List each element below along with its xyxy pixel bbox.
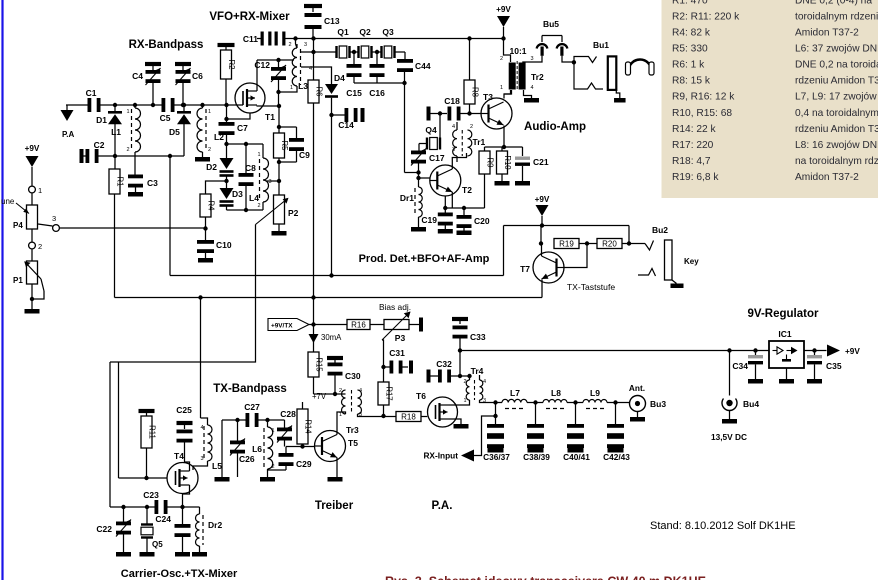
svg-text:3: 3 [52,214,56,223]
svg-text:C40/41: C40/41 [563,452,590,462]
svg-text:RX-Input: RX-Input [423,451,458,461]
svg-text:3: 3 [304,42,307,48]
svg-text:4: 4 [483,379,486,385]
svg-text:R6: 1 k: R6: 1 k [672,60,705,71]
svg-text:C1: C1 [86,88,97,98]
svg-text:R4: R4 [206,201,215,212]
svg-text:D2: D2 [206,162,217,172]
svg-text:R18: 4,7: R18: 4,7 [672,156,711,167]
svg-text:C12: C12 [254,60,270,70]
svg-text:R8: R8 [470,87,479,97]
svg-text:C44: C44 [415,61,431,71]
svg-text:P3: P3 [395,333,406,343]
svg-text:Ant.: Ant. [629,383,645,393]
svg-text:2: 2 [257,203,260,209]
svg-text:P4: P4 [13,221,23,230]
svg-text:C23: C23 [143,490,159,500]
svg-text:Carrier-Osc.+TX-Mixer: Carrier-Osc.+TX-Mixer [121,568,238,580]
svg-text:L4: L4 [249,193,259,203]
svg-text:D4: D4 [334,73,345,83]
svg-text:R5: 330: R5: 330 [672,44,708,55]
svg-text:Treiber: Treiber [315,500,354,512]
svg-text:R19: R19 [559,239,574,248]
svg-text:Q3: Q3 [382,27,394,37]
svg-text:1: 1 [208,109,211,115]
svg-text:RX-Bandpass: RX-Bandpass [129,39,204,51]
svg-text:toroidalnym rdzeniu: toroidalnym rdzeniu [795,11,878,22]
svg-text:C38/39: C38/39 [523,452,550,462]
svg-text:R8: 15 k: R8: 15 k [672,76,711,87]
svg-text:C7: C7 [237,123,248,133]
svg-text:2: 2 [208,147,211,153]
svg-text:TX-Taststufe: TX-Taststufe [567,282,615,292]
svg-text:4: 4 [531,85,534,91]
svg-text:Amidon T37-2: Amidon T37-2 [795,172,859,183]
svg-text:P.A.: P.A. [432,500,453,512]
svg-text:L5: L5 [212,461,222,471]
svg-text:R5: R5 [280,141,289,152]
svg-text:3: 3 [269,179,272,185]
svg-text:R14: 22 k: R14: 22 k [672,124,717,135]
svg-text:Key: Key [684,257,699,266]
svg-text:Q4: Q4 [425,125,437,135]
svg-text:IC1: IC1 [778,329,792,339]
svg-text:C21: C21 [533,157,549,167]
svg-text:R2: R11: 220 k: R2: R11: 220 k [672,11,740,22]
svg-text:DNE 0,2 (0-4) na: DNE 0,2 (0-4) na [795,0,872,6]
svg-text:2: 2 [339,388,342,394]
svg-text:Audio-Amp: Audio-Amp [524,121,586,133]
svg-text:L7: L7 [510,388,520,398]
svg-text:C3: C3 [147,178,158,188]
svg-text:C16: C16 [369,88,385,98]
svg-text:C9: C9 [299,150,310,160]
svg-text:Bu1: Bu1 [593,40,609,50]
svg-text:1: 1 [290,85,293,91]
svg-text:R1: R1 [115,177,124,187]
svg-text:Bu5: Bu5 [543,19,559,29]
svg-text:rdzeniu Amidon T37-2: rdzeniu Amidon T37-2 [795,124,878,135]
svg-text:C35: C35 [826,361,842,371]
svg-text:R18: R18 [401,412,416,421]
svg-text:D5: D5 [169,127,180,137]
svg-text:R17: 220: R17: 220 [672,140,714,151]
svg-text:L8: L8 [551,388,561,398]
svg-text:R4: 82 k: R4: 82 k [672,27,711,38]
svg-text:Amidon T37-2: Amidon T37-2 [795,27,859,38]
svg-text:C19: C19 [421,215,437,225]
svg-text:2: 2 [272,464,275,470]
svg-text:T4: T4 [174,451,184,461]
svg-text:D3: D3 [232,189,243,199]
svg-text:T2: T2 [462,185,472,195]
svg-text:C20: C20 [474,216,490,226]
svg-text:1: 1 [257,152,260,158]
svg-text:2: 2 [38,242,42,251]
svg-text:R11: R11 [147,425,156,439]
svg-text:T7: T7 [520,264,530,274]
svg-text:Bu3: Bu3 [650,399,666,409]
svg-text:T3: T3 [483,92,493,102]
svg-text:C11: C11 [243,34,258,44]
svg-text:R9: R9 [485,158,494,168]
svg-text:une: une [1,197,15,206]
svg-text:Bu4: Bu4 [743,399,759,409]
svg-text:C26: C26 [239,454,255,464]
svg-text:C42/43: C42/43 [603,452,630,462]
svg-text:2: 2 [470,124,473,130]
svg-text:T1: T1 [265,112,275,122]
svg-text:0,4 na toroidalnym: 0,4 na toroidalnym [795,108,878,119]
svg-text:L6: 37 zwojów DNE: L6: 37 zwojów DNE [795,44,878,55]
svg-text:Q1: Q1 [337,27,349,37]
svg-text:C24: C24 [155,514,171,524]
svg-text:C14: C14 [338,120,354,130]
svg-text:1: 1 [463,398,466,404]
svg-text:R9, R16: 12 k: R9, R16: 12 k [672,92,735,103]
svg-text:+9V: +9V [25,144,40,153]
svg-text:+9V: +9V [496,5,511,14]
svg-text:TX-Bandpass: TX-Bandpass [213,383,287,395]
svg-text:C13: C13 [324,16,340,26]
svg-text:3: 3 [452,147,455,153]
svg-text:C15: C15 [346,88,362,98]
svg-text:+9V: +9V [845,347,860,356]
svg-text:R17: R17 [384,386,393,400]
svg-text:1: 1 [272,428,275,434]
svg-text:R15: R15 [314,357,323,372]
svg-text:+9V: +9V [535,195,550,204]
svg-text:R10: R10 [503,155,512,170]
svg-text:C33: C33 [470,332,486,342]
svg-text:3: 3 [531,56,534,62]
svg-text:Bu2: Bu2 [652,225,668,235]
svg-text:Dr2: Dr2 [208,520,222,530]
svg-text:C28: C28 [280,409,296,419]
svg-text:L1: L1 [111,127,121,137]
svg-text:C31: C31 [389,348,405,358]
svg-text:Bias adj.: Bias adj. [379,302,411,312]
svg-text:C36/37: C36/37 [483,452,510,462]
svg-text:C8: C8 [245,163,256,173]
svg-text:Tr4: Tr4 [471,366,484,376]
svg-text:C25: C25 [176,405,192,415]
svg-text:3: 3 [200,456,203,462]
svg-text:C2: C2 [94,140,105,150]
svg-text:C29: C29 [296,459,312,469]
svg-text:Q2: Q2 [359,27,371,37]
svg-text:P2: P2 [288,208,299,218]
svg-text:9V-Regulator: 9V-Regulator [748,308,819,320]
svg-text:Q5: Q5 [152,540,163,549]
svg-text:10:1: 10:1 [509,46,526,56]
svg-text:30mA: 30mA [321,333,342,342]
svg-text:C18: C18 [444,96,460,106]
svg-text:rdzeniu Amidon T37-2: rdzeniu Amidon T37-2 [795,76,878,87]
svg-text:1: 1 [500,85,503,91]
svg-text:C22: C22 [96,524,112,534]
svg-text:Prod. Det.+BFO+AF-Amp: Prod. Det.+BFO+AF-Amp [359,253,490,265]
svg-text:C6: C6 [192,71,203,81]
svg-text:Dr1: Dr1 [400,193,414,203]
svg-text:R2: R2 [227,60,236,70]
svg-text:1: 1 [38,186,42,195]
svg-text:T5: T5 [348,438,358,448]
svg-text:VFO+RX-Mixer: VFO+RX-Mixer [209,11,290,23]
svg-text:Tr3: Tr3 [346,425,359,435]
svg-text:na toroidalnym rdzeniu: na toroidalnym rdzeniu [795,156,878,167]
svg-text:Tr1: Tr1 [473,137,486,147]
svg-text:13,5V DC: 13,5V DC [711,432,747,442]
svg-text:L3: L3 [298,81,308,91]
svg-text:C27: C27 [244,402,260,412]
svg-text:L6: L6 [252,444,262,454]
svg-text:R1: 470: R1: 470 [672,0,708,6]
svg-text:Tr2: Tr2 [531,72,544,82]
svg-text:T6: T6 [416,391,426,401]
svg-text:R10, R15: 68: R10, R15: 68 [672,108,732,119]
svg-text:DNE 0,2 na toroidalnym: DNE 0,2 na toroidalnym [795,60,878,71]
svg-text:R16: R16 [351,320,366,329]
svg-text:2: 2 [126,147,129,153]
svg-text:C10: C10 [216,240,232,250]
svg-text:C30: C30 [345,371,361,381]
svg-text:C17: C17 [429,153,445,163]
svg-text:Rys. 3. Schemat ideowy transce: Rys. 3. Schemat ideowy transceivera CW 4… [385,575,706,580]
svg-text:Stand: 8.10.2012 Solf DK1HE: Stand: 8.10.2012 Solf DK1HE [650,520,796,532]
svg-text:2: 2 [500,56,503,62]
svg-text:C32: C32 [436,359,452,369]
svg-text:C4: C4 [132,71,143,81]
svg-text:P.A: P.A [62,130,75,139]
svg-text:+9V/TX: +9V/TX [271,322,293,329]
svg-text:D1: D1 [96,115,107,125]
svg-text:2: 2 [288,42,291,48]
svg-text:R20: R20 [602,239,617,248]
svg-text:R19: 6,8 k: R19: 6,8 k [672,172,719,183]
svg-text:L7, L9: 17 zwojów: L7, L9: 17 zwojów [795,92,877,103]
svg-text:1: 1 [339,412,342,418]
svg-text:1: 1 [126,109,129,115]
svg-text:P1: P1 [13,276,23,285]
svg-text:C5: C5 [160,113,171,123]
svg-text:R14: R14 [303,419,312,434]
svg-text:L9: L9 [590,388,600,398]
svg-text:R6: R6 [314,87,323,97]
svg-text:L8: 16 zwojów DNE: L8: 16 zwojów DNE [795,140,878,151]
svg-text:4: 4 [200,425,203,431]
svg-text:+7V: +7V [312,392,327,401]
svg-text:C34: C34 [732,361,748,371]
svg-text:4: 4 [452,124,455,130]
svg-text:2: 2 [463,379,466,385]
svg-text:4: 4 [359,388,362,394]
